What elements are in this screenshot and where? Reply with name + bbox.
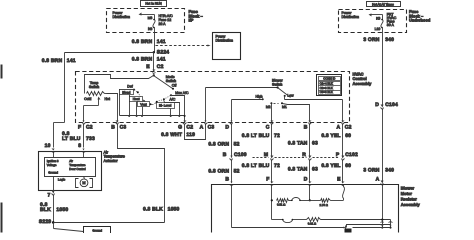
wire 3 ORN 340 lower <box>382 109 384 181</box>
blower motor feed exits <box>381 220 393 229</box>
svg-text:3 ORN: 3 ORN <box>363 37 379 43</box>
pin E resistor connector <box>337 176 344 185</box>
wire 0.8 BRN 141 branch left to actuator <box>54 53 154 148</box>
svg-text:72: 72 <box>274 133 280 139</box>
pin F connector C2 <box>78 121 93 131</box>
pin B connector C3 hvac <box>111 121 126 131</box>
pin D connector <box>225 121 232 131</box>
temp switch wiper arrow <box>84 97 101 121</box>
svg-text:A: A <box>376 177 380 183</box>
svg-text:C104: C104 <box>385 102 398 108</box>
pin A connector C2 <box>336 121 351 131</box>
pin 8 actuator <box>78 143 85 153</box>
splice S224 <box>153 49 170 55</box>
svg-text:Motor: Motor <box>401 191 413 196</box>
wire label 3 ORN 340 upper <box>363 37 394 43</box>
wire 3 ORN 340 upper <box>382 33 384 105</box>
blower wiper path dashes <box>274 103 279 105</box>
svg-text:0.8 LT BLU: 0.8 LT BLU <box>242 133 270 139</box>
svg-text:M1: M1 <box>282 105 287 109</box>
svg-text:30 A: 30 A <box>387 23 395 27</box>
pin B resistor connector <box>225 176 233 185</box>
svg-text:3 ORN: 3 ORN <box>363 168 379 174</box>
label Blower Motor Resistor Assembly <box>401 185 421 207</box>
dashed reference arrow to power distribution <box>156 45 211 47</box>
svg-text:B: B <box>225 176 229 182</box>
contact Def <box>120 84 136 115</box>
svg-text:High: High <box>256 95 263 99</box>
HVAC control assembly dashed box <box>76 72 350 123</box>
svg-text:S229: S229 <box>39 219 51 225</box>
svg-text:B: B <box>304 125 308 131</box>
fuse name text underhood <box>387 13 397 28</box>
svg-text:Actuator: Actuator <box>104 159 119 163</box>
wire label 0.8 ORN 52 upper <box>208 141 239 147</box>
svg-text:141: 141 <box>67 58 76 64</box>
svg-text:119: 119 <box>186 132 195 138</box>
svg-text:Underhood: Underhood <box>409 18 431 23</box>
svg-text:8: 8 <box>78 143 81 149</box>
svg-text:B: B <box>223 152 227 158</box>
logic label <box>58 178 66 182</box>
svg-text:C3: C3 <box>208 125 215 131</box>
svg-text:7: 7 <box>48 192 51 198</box>
mode switch arm <box>154 76 175 90</box>
svg-text:0.8 WHT: 0.8 WHT <box>161 132 182 138</box>
power distribution reference text <box>113 11 131 19</box>
svg-text:Assembly: Assembly <box>353 81 373 86</box>
wire pin F inside <box>271 185 273 220</box>
svg-text:M6: M6 <box>148 16 153 20</box>
svg-text:Hot: Hot <box>104 97 109 101</box>
svg-text:C3=3 BLK: C3=3 BLK <box>320 90 333 94</box>
svg-text:0.8 BRN: 0.8 BRN <box>132 56 153 62</box>
blower switch feed wire <box>206 86 279 88</box>
svg-text:C3: C3 <box>120 125 127 131</box>
svg-text:Logic: Logic <box>58 178 66 182</box>
svg-text:Hot In RUN: Hot In RUN <box>145 2 162 6</box>
pin C connector <box>266 121 274 131</box>
svg-text:340: 340 <box>385 168 394 174</box>
pin D resistor connector <box>304 176 312 185</box>
svg-text:0.8 LT BLU: 0.8 LT BLU <box>242 163 270 169</box>
svg-text:Distribution: Distribution <box>216 39 234 43</box>
label Fuse Block - Underhood <box>409 9 431 23</box>
contact M2 <box>266 102 273 120</box>
svg-text:G: G <box>178 125 182 131</box>
contact A/C <box>163 97 180 117</box>
svg-text:Switch: Switch <box>272 83 282 87</box>
wire 0.8 LT BLU 72 lower <box>271 160 273 182</box>
svg-text:Vent: Vent <box>140 102 146 106</box>
fuse block I/P dashed box <box>107 9 185 33</box>
thermal limiter row2 <box>282 219 307 223</box>
splice S229 <box>39 219 55 225</box>
wire 0.8 TAN 63 lower <box>309 160 311 182</box>
svg-text:F: F <box>266 176 269 182</box>
svg-text:10: 10 <box>45 143 51 149</box>
svg-text:C2: C2 <box>157 64 164 70</box>
connector C109 pin M <box>264 152 274 160</box>
pin B connector <box>304 121 312 131</box>
wire label 0.8 LT BLU 72 lower <box>242 163 280 169</box>
svg-text:Distribution: Distribution <box>342 15 360 19</box>
pin 7 actuator <box>48 191 55 199</box>
svg-text:K9: K9 <box>376 17 380 21</box>
wire label 3 ORN 340 lower <box>363 168 394 174</box>
power distribution reference text underhood <box>342 11 360 19</box>
label Cold <box>84 97 91 101</box>
svg-text:Blend: Blend <box>122 90 130 94</box>
motor M <box>76 177 93 188</box>
svg-text:Heat: Heat <box>133 97 140 101</box>
svg-text:L10: L10 <box>375 27 381 31</box>
wire 0.8 ORN 52 lower <box>231 160 233 182</box>
wire 0.8 WHT 119 jumper <box>185 124 206 140</box>
svg-text:P: P <box>336 152 340 158</box>
svg-text:0.8 ORN: 0.8 ORN <box>208 141 229 147</box>
svg-text:0.8 ORN: 0.8 ORN <box>208 168 229 174</box>
svg-text:C2: C2 <box>345 125 352 131</box>
wire label 0.8 BRN 141 left <box>42 58 76 64</box>
label Mode Switch <box>166 75 176 83</box>
connector C109 pin B <box>223 152 247 160</box>
svg-text:Ground: Ground <box>92 228 102 232</box>
fuse HTR-A/C Fuse 12 20 A <box>153 15 155 33</box>
pin E connector C2 <box>146 64 163 73</box>
thermal limiter row1 <box>289 198 310 202</box>
label Temp Switch <box>89 81 99 89</box>
svg-text:M: M <box>82 181 85 185</box>
wire label 0.8 WHT 119 <box>161 132 195 138</box>
svg-text:A: A <box>200 125 204 131</box>
svg-text:Low: Low <box>287 93 294 97</box>
contact M1 <box>281 102 310 120</box>
svg-text:Switch: Switch <box>166 79 176 83</box>
svg-text:Switch: Switch <box>89 85 99 89</box>
svg-text:F: F <box>78 125 81 131</box>
svg-text:60: 60 <box>345 133 351 139</box>
label Hot In RUN <box>141 1 167 7</box>
terminal L10 <box>375 27 381 31</box>
wire 0.8 YEL 60 lower <box>342 160 344 182</box>
svg-text:60: 60 <box>345 163 351 169</box>
wire feed to temp switch <box>85 75 154 94</box>
svg-text:C2: C2 <box>186 125 193 131</box>
terminal N6 <box>148 27 152 31</box>
svg-text:Def: Def <box>127 84 132 88</box>
svg-text:Bi- Level: Bi- Level <box>159 104 172 108</box>
contact Max A/C <box>170 91 189 120</box>
svg-text:2.79 Ω: 2.79 Ω <box>320 203 328 207</box>
label Hot <box>104 97 109 101</box>
svg-text:52: 52 <box>234 141 240 147</box>
svg-text:63: 63 <box>312 166 318 172</box>
mode switch contact arc <box>135 90 171 105</box>
connector C109 C102 dashed line <box>253 157 340 159</box>
label Hot At All Times <box>367 2 401 7</box>
wire pin B inside <box>231 185 233 228</box>
node E junction <box>153 74 155 76</box>
wire label 0.8 BRN 141 <box>132 39 166 45</box>
power distribution arrow underhood <box>369 14 383 17</box>
svg-text:Distribution: Distribution <box>113 15 131 19</box>
wire label 0.8 YEL 60 upper <box>321 133 351 139</box>
wire 0.8 YEL 60 upper <box>342 124 344 157</box>
actuator internal wires <box>54 152 84 191</box>
contact Vent <box>138 102 152 117</box>
contact High <box>232 95 264 121</box>
svg-text:I/P: I/P <box>189 18 194 23</box>
svg-text:Off: Off <box>172 83 177 87</box>
wire label 0.8 LT BLU 72 upper <box>242 133 280 139</box>
connector C102 pin P <box>336 152 358 160</box>
wire pin E inside with loop <box>343 185 345 201</box>
terminal K9 <box>376 17 380 21</box>
svg-text:141: 141 <box>157 56 166 62</box>
resistor 0.31 ohm <box>307 218 391 226</box>
wire label 0.8 TAN 63 lower <box>288 166 318 172</box>
svg-text:340: 340 <box>385 37 394 43</box>
svg-text:D: D <box>375 102 379 108</box>
svg-text:Voltage: Voltage <box>47 163 57 167</box>
svg-text:M2: M2 <box>266 105 271 109</box>
wire 0.8 BRN 141 from fuse to S224 <box>154 33 156 53</box>
wire label 0.8 BLK 1050 right <box>143 206 180 212</box>
scan artifact bar left upper <box>1 65 3 79</box>
svg-text:A/C: A/C <box>169 97 175 101</box>
pin A resistor feed connector <box>376 177 384 186</box>
blower motor resistor assembly box <box>212 185 399 233</box>
svg-text:A: A <box>336 125 340 131</box>
svg-text:1050: 1050 <box>168 206 180 212</box>
svg-text:Blower: Blower <box>401 185 415 190</box>
ground G404 connection <box>54 223 84 232</box>
mode switch wiper path dashes <box>152 103 157 105</box>
svg-text:20 A: 20 A <box>159 22 167 26</box>
svg-text:Air: Air <box>104 150 109 154</box>
svg-text:72: 72 <box>274 163 280 169</box>
svg-text:0.8 BRN: 0.8 BRN <box>42 58 63 64</box>
svg-text:CONN ID: CONN ID <box>323 76 335 80</box>
svg-text:D: D <box>304 176 308 182</box>
ground bus wire <box>54 222 165 224</box>
svg-text:R: R <box>302 152 306 158</box>
pin A connector C3 <box>200 88 215 131</box>
fuse FRT HVAC Fuse 30 A <box>381 15 383 33</box>
label Air Temperature Actuator <box>104 150 125 163</box>
svg-text:0.8 YEL: 0.8 YEL <box>321 133 340 139</box>
svg-text:Cold: Cold <box>84 97 91 101</box>
svg-text:63: 63 <box>312 141 318 147</box>
actuator inner logic box <box>45 158 96 177</box>
svg-text:Max A/C: Max A/C <box>175 91 189 95</box>
wire pin A inside <box>382 185 384 220</box>
svg-text:C: C <box>266 125 270 131</box>
svg-text:BLK: BLK <box>40 207 51 213</box>
wire row2 from F <box>272 219 283 221</box>
svg-text:733: 733 <box>86 136 95 142</box>
svg-text:0.51 Ω: 0.51 Ω <box>277 203 285 207</box>
contact Low <box>284 93 343 120</box>
connector C102 pin R <box>302 152 311 160</box>
svg-text:D: D <box>225 125 229 131</box>
fuse name text <box>159 14 174 26</box>
svg-text:B: B <box>111 125 115 131</box>
svg-text:E: E <box>146 64 150 70</box>
label Off <box>172 83 177 87</box>
svg-text:M: M <box>264 152 268 158</box>
svg-text:C102: C102 <box>345 152 358 158</box>
wire label 0.8 YEL 60 lower <box>321 163 351 169</box>
svg-text:Door Control: Door Control <box>69 167 86 171</box>
clipped label box bottom <box>345 229 352 233</box>
svg-text:E: E <box>337 176 341 182</box>
contact Heat <box>130 97 146 117</box>
wire label 0.8 BRN 141 lower <box>132 56 166 62</box>
actuator internal text <box>47 159 86 175</box>
svg-text:S224: S224 <box>157 49 169 55</box>
wire pin D inside <box>309 185 311 202</box>
svg-text:0.8 YEL: 0.8 YEL <box>321 163 340 169</box>
power distribution arrow <box>139 13 155 16</box>
fuse block underhood dashed box <box>339 10 407 33</box>
svg-text:1050: 1050 <box>56 207 68 213</box>
svg-text:Hot At All Times: Hot At All Times <box>372 2 394 6</box>
wire temp switch to pin B C3 <box>107 94 118 121</box>
pin F resistor connector <box>266 176 273 185</box>
wire 0.8 BRN 141 to HVAC pin E <box>153 53 155 71</box>
resistor 2.79 ohm <box>310 199 344 207</box>
svg-text:C2: C2 <box>86 125 93 131</box>
scan artifact bar left lower <box>1 203 3 233</box>
svg-text:141: 141 <box>157 39 166 45</box>
svg-text:Temperature: Temperature <box>104 155 125 159</box>
CONN ID table <box>317 75 342 96</box>
pin G connector C2 <box>178 121 193 131</box>
contact Bi-Level <box>156 101 175 117</box>
svg-text:0.8 BLK: 0.8 BLK <box>143 206 163 212</box>
connector C104 pin D <box>375 102 398 109</box>
wire 0.8 LT BLU 72 upper <box>271 124 273 157</box>
pin 10 actuator <box>45 143 55 153</box>
wire 0.8 TAN 63 upper <box>309 124 311 157</box>
svg-text:Ground: Ground <box>48 170 58 174</box>
temp switch potentiometer <box>87 92 107 96</box>
svg-text:Assembly: Assembly <box>401 202 421 207</box>
svg-text:0.8 TAN: 0.8 TAN <box>288 166 308 172</box>
terminal M6 <box>148 16 153 20</box>
air temperature actuator box <box>39 152 102 191</box>
wire 0.8 LT BLU 733 <box>83 124 85 148</box>
label Fuse Block - I/P <box>189 9 204 23</box>
mode switch output bus <box>120 115 185 117</box>
svg-text:0.31 Ω: 0.31 Ω <box>308 222 316 226</box>
label HVAC Control Assembly <box>353 71 373 86</box>
svg-text:C109: C109 <box>234 152 247 158</box>
wire label 0.8 LT BLU 733 <box>62 131 95 142</box>
svg-text:N6: N6 <box>148 27 152 31</box>
resistor 0.51 ohm <box>277 199 289 207</box>
wire 0.8 BLK 1050 <box>53 195 55 223</box>
wire label 0.8 BLK 1050 <box>40 202 68 213</box>
wire row3 ground from B <box>232 225 391 230</box>
wire 0.8 ORN 52 upper <box>231 124 233 157</box>
svg-text:0.8 TAN: 0.8 TAN <box>288 141 308 147</box>
svg-text:LT BLU: LT BLU <box>62 136 81 142</box>
svg-text:52: 52 <box>234 168 240 174</box>
wire 0.8 BLK 1050 hvac ground <box>118 124 165 223</box>
power distribution box <box>213 33 241 60</box>
ground box <box>84 227 111 234</box>
wire label 0.8 TAN 63 upper <box>288 141 318 147</box>
contact Blend <box>120 90 139 117</box>
svg-text:Resistor: Resistor <box>401 196 417 201</box>
blower switch arm <box>278 88 291 98</box>
svg-text:0.8 BRN: 0.8 BRN <box>132 39 153 45</box>
wire label 0.8 ORN 52 lower <box>208 168 239 174</box>
label Blower Switch <box>272 79 284 87</box>
